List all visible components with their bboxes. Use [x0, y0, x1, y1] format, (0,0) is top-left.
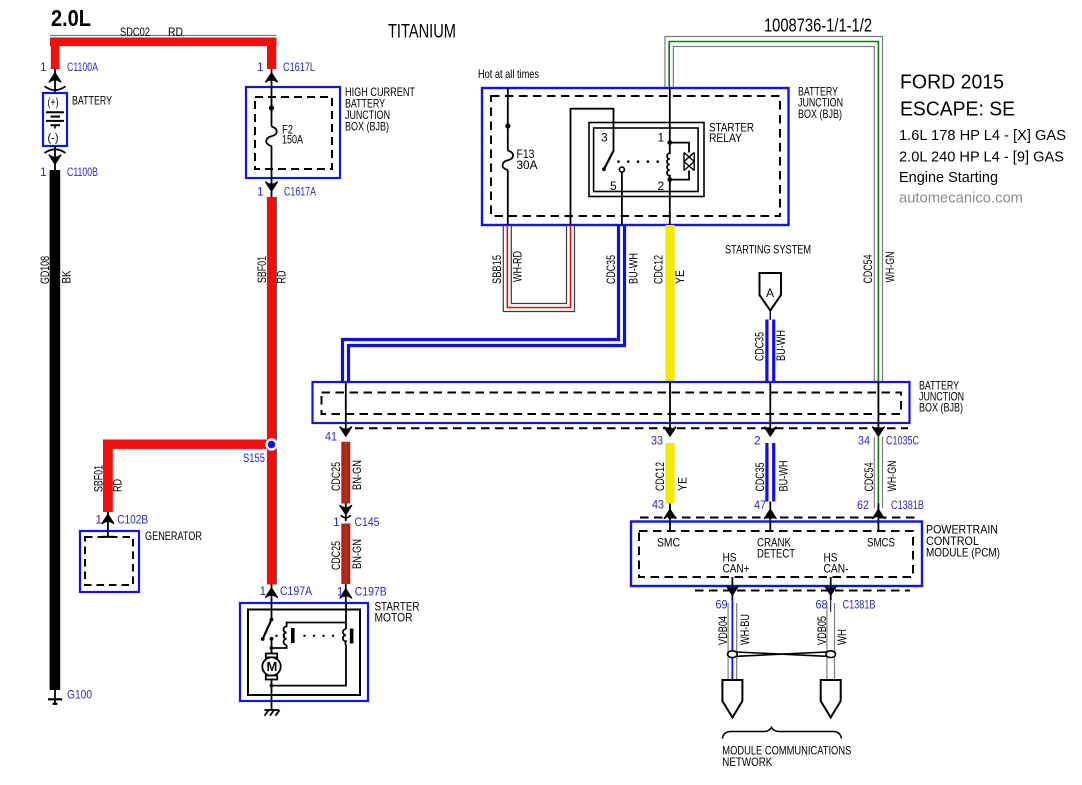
- wire CDC35 BU-WH from A to BJB strip (double blue): [767, 320, 774, 383]
- label SDC02: [120, 25, 150, 39]
- svg-text:C197B: C197B: [355, 585, 387, 599]
- PCM pin 47 stub: [769, 522, 771, 532]
- svg-text:SMCS: SMCS: [867, 536, 895, 550]
- svg-text:VDB04: VDB04: [716, 616, 730, 645]
- label SBF01 generator branch: [92, 465, 106, 492]
- svg-text:BU-WH: BU-WH: [627, 253, 641, 284]
- svg-text:BU-WH: BU-WH: [777, 461, 791, 492]
- svg-text:1: 1: [260, 584, 267, 598]
- connector C1617A symbol (arrow): [266, 178, 278, 197]
- label Hot at all times: [478, 67, 539, 81]
- svg-text:69: 69: [716, 598, 728, 612]
- label CDC35: [604, 255, 618, 284]
- svg-text:C197A: C197A: [280, 584, 312, 598]
- svg-text:C1381B: C1381B: [843, 598, 876, 612]
- svg-text:C1617A: C1617A: [284, 185, 316, 199]
- svg-text:SDC02: SDC02: [120, 25, 150, 39]
- generator box: [80, 531, 139, 592]
- svg-text:TITANIUM: TITANIUM: [388, 22, 456, 43]
- wire CDC35 BU-WH strip to PCM (double blue): [767, 443, 774, 502]
- label F13 30A: [517, 147, 538, 172]
- connector C1100A symbol (arrow + socket arc): [45, 69, 66, 93]
- connector C1381B arrow pin 69: [727, 586, 739, 595]
- off-page connector A: [760, 273, 782, 311]
- starter hold-in return wire: [270, 645, 346, 687]
- svg-text:RD: RD: [275, 270, 289, 283]
- label STARTER RELAY: [709, 121, 754, 146]
- wire CDC25 BN-GN segment 2: [341, 524, 350, 585]
- connector C145 arrow: [340, 504, 352, 522]
- label pin 47: [754, 498, 766, 512]
- svg-text:M: M: [267, 659, 278, 674]
- connector C1100B symbol (socket arc + arrow): [45, 146, 66, 170]
- connector C197B arrow: [340, 584, 352, 603]
- high current battery junction box (BJB): [246, 87, 340, 178]
- svg-text:CDC35: CDC35: [604, 255, 618, 284]
- label ESCAPE: SE header: [900, 99, 1015, 121]
- svg-text:WH-GN: WH-GN: [883, 252, 897, 283]
- svg-text:C102B: C102B: [117, 513, 148, 527]
- svg-text:2.0L 240 HP L4 - [9] GAS: 2.0L 240 HP L4 - [9] GAS: [899, 150, 1064, 166]
- label BATTERY JUNCTION BOX (BJB): [798, 85, 843, 122]
- label HS CAN-: [824, 551, 849, 576]
- svg-text:CDC54: CDC54: [862, 462, 876, 491]
- label RD: [168, 25, 183, 39]
- connector C197A arrow: [266, 585, 278, 604]
- svg-text:WH-RD: WH-RD: [511, 251, 525, 282]
- starter motor M: [262, 648, 280, 710]
- battery junction box (BJB) top: [482, 88, 789, 225]
- svg-text:BOX (BJB): BOX (BJB): [345, 120, 389, 134]
- svg-text:41: 41: [325, 430, 337, 444]
- label SBB15: [490, 255, 504, 284]
- svg-text:BATTERY: BATTERY: [72, 94, 112, 108]
- connector C1035C arrow pin 41: [340, 427, 352, 436]
- svg-text:BK: BK: [60, 271, 74, 284]
- label BU-WH lower: [777, 461, 791, 492]
- wire to fuse F13: [507, 88, 509, 225]
- label pin 34: [858, 434, 870, 448]
- label CDC12: [652, 255, 666, 284]
- wire pin41 through strip: [345, 382, 347, 436]
- label CDC54 upper run: [861, 254, 875, 283]
- label pin 43: [652, 498, 664, 512]
- label pin 33: [651, 434, 663, 448]
- svg-text:30A: 30A: [517, 158, 538, 172]
- connector C102B arrow: [102, 512, 114, 531]
- connector C1381B arrow pin 43: [664, 504, 676, 522]
- PCM pin 43 stub: [669, 522, 671, 532]
- label connector C1381B bottom: [843, 598, 876, 612]
- svg-text:BOX (BJB): BOX (BJB): [919, 401, 963, 415]
- connector C1381B dashed line bottom: [695, 590, 910, 592]
- svg-text:3: 3: [601, 131, 608, 145]
- battery (-) terminal label: [48, 131, 59, 145]
- relay pin 2 label: [658, 179, 665, 193]
- wire SDC02 RD battery feed (thin outline above): [50, 34, 277, 36]
- svg-text:C1100B: C1100B: [67, 165, 98, 179]
- connector C1035C arrow pin 2: [765, 427, 777, 436]
- svg-text:43: 43: [652, 498, 664, 512]
- label connector C1381B top: [891, 498, 924, 512]
- wire pin2 through strip: [769, 382, 771, 436]
- relay switch blade: [602, 151, 614, 171]
- label STARTER MOTOR: [375, 600, 420, 625]
- node relay pin 1 dot: [667, 140, 672, 145]
- wire relay pin 3 feed: [571, 109, 614, 225]
- label Engine Starting: [899, 170, 998, 186]
- svg-text:1: 1: [257, 185, 264, 199]
- label 1008736-1/1-1/2: [764, 16, 872, 36]
- connector C1381B dashed line: [640, 517, 915, 519]
- label connector C1035C: [886, 434, 919, 448]
- starter switch feed wire: [270, 603, 274, 621]
- svg-text:ESCAPE: SE: ESCAPE: SE: [900, 99, 1015, 121]
- PCM pin 62 stub: [877, 522, 879, 532]
- svg-text:Engine Starting: Engine Starting: [899, 170, 998, 186]
- fuse F13 30A: [503, 151, 514, 171]
- label SMC: [657, 536, 680, 550]
- svg-text:CDC25: CDC25: [329, 462, 343, 491]
- connector C197A pin 1 label: [260, 584, 313, 598]
- wire CDC35 BU-WH relay pin5 to BJB strip (double blue): [343, 225, 625, 382]
- label VDB04: [716, 616, 730, 645]
- svg-text:YE: YE: [676, 477, 690, 491]
- svg-text:CAN+: CAN+: [723, 562, 750, 576]
- svg-text:RELAY: RELAY: [709, 131, 742, 145]
- svg-text:5: 5: [610, 179, 617, 193]
- connector C1035C dashed line: [355, 427, 908, 429]
- label WH-RD: [511, 251, 525, 282]
- connector C1617L symbol (arrow): [266, 69, 278, 87]
- label BN-GN segment 1: [350, 460, 364, 490]
- svg-text:GENERATOR: GENERATOR: [145, 529, 202, 543]
- wire WH-GN loop from header (gray-green-gray): [665, 37, 883, 383]
- wire red vertical to C1100A: [51, 38, 60, 70]
- svg-text:CDC35: CDC35: [753, 462, 767, 491]
- label CDC25 segment 1: [329, 462, 343, 491]
- svg-text:47: 47: [754, 498, 766, 512]
- label S155: [243, 451, 265, 465]
- label BU-WH: [627, 253, 641, 284]
- label RD generator branch: [111, 479, 125, 492]
- label CDC25 segment 2: [329, 541, 343, 570]
- svg-text:WH-BU: WH-BU: [738, 614, 752, 645]
- label pin 69: [716, 598, 728, 612]
- svg-text:Hot at all times: Hot at all times: [478, 67, 539, 81]
- svg-text:34: 34: [858, 434, 870, 448]
- connector C145 pin 1 label: [333, 515, 380, 529]
- label WH-GN upper run: [883, 252, 897, 283]
- svg-text:C1617L: C1617L: [283, 60, 315, 74]
- relay pin 5 contact: [619, 167, 624, 172]
- label HIGH CURRENT BATTERY JUNCTION BOX (BJB): [345, 85, 416, 134]
- label BATTERY JUNCTION BOX (BJB) strip: [919, 379, 964, 415]
- label BATTERY: [72, 94, 112, 108]
- label CDC54 lower: [862, 462, 876, 491]
- svg-text:WH: WH: [835, 629, 849, 645]
- label SMCS: [867, 536, 895, 550]
- node junction dot in HC BJB: [269, 105, 274, 110]
- svg-text:WH-GN: WH-GN: [885, 461, 899, 492]
- wire VDB05 WH (gray-gray): [827, 600, 835, 680]
- wire CDC25 BN-GN segment 1: [341, 442, 350, 504]
- label HS CAN+: [723, 551, 750, 576]
- wire SBB15 WH-RD loop (black-red-black): [503, 225, 574, 312]
- wire pin34 through strip: [877, 382, 879, 436]
- label VDB05: [815, 616, 829, 645]
- connector C1381B arrow pin 62: [873, 504, 885, 522]
- svg-text:BU-WH: BU-WH: [774, 330, 788, 361]
- label FORD 2015 header: [900, 72, 1004, 94]
- label CDC12 lower: [653, 462, 667, 491]
- label TITANIUM: [388, 22, 456, 43]
- connector C102B pin 1 label: [95, 513, 148, 527]
- label pin 62: [857, 498, 869, 512]
- svg-text:CDC12: CDC12: [653, 462, 667, 491]
- svg-text:2.0L: 2.0L: [51, 5, 91, 31]
- label BK: [60, 271, 74, 284]
- connector C1035C arrow pin 33: [664, 427, 676, 436]
- battery cell plates symbol: [46, 112, 64, 128]
- svg-text:2: 2: [754, 434, 761, 448]
- wire relay pin 5 to box edge: [621, 172, 623, 225]
- label STARTING SYSTEM: [725, 243, 811, 257]
- label WH: [835, 629, 849, 645]
- connector C1381B arrow pin 68: [825, 586, 837, 595]
- connector C197B pin 1 label: [337, 585, 387, 599]
- wire CDC12 YE strip to PCM: [665, 443, 674, 504]
- relay coil: [667, 143, 670, 180]
- svg-text:MODULE (PCM): MODULE (PCM): [926, 546, 1000, 560]
- svg-text:FORD 2015: FORD 2015: [900, 72, 1004, 94]
- svg-text:33: 33: [651, 434, 663, 448]
- svg-text:NETWORK: NETWORK: [722, 755, 772, 769]
- svg-text:1: 1: [40, 60, 47, 74]
- relay pin 1 label: [658, 131, 665, 145]
- label CDC35 lower: [753, 462, 767, 491]
- wire pin33 through strip: [669, 382, 671, 436]
- svg-text:BN-GN: BN-GN: [350, 539, 364, 569]
- svg-text:C1035C: C1035C: [886, 434, 919, 448]
- wire VDB04 WH-BU (gray-blue-gray): [728, 600, 737, 680]
- connector C1617L pin 1 label: [257, 60, 315, 74]
- battery junction box strip: [313, 382, 910, 423]
- svg-text:STARTING SYSTEM: STARTING SYSTEM: [725, 243, 811, 257]
- svg-text:SBB15: SBB15: [490, 255, 504, 284]
- svg-text:1008736-1/1-1/2: 1008736-1/1-1/2: [764, 16, 872, 36]
- svg-text:1: 1: [337, 585, 344, 599]
- svg-text:BN-GN: BN-GN: [350, 460, 364, 490]
- connector C1100B pin 1 label: [40, 165, 98, 179]
- label SBF01 upper run: [255, 256, 269, 283]
- label YE: [673, 270, 687, 284]
- label POWERTRAIN CONTROL MODULE (PCM): [926, 523, 1000, 560]
- svg-text:GD108: GD108: [38, 256, 52, 284]
- wire SDC02 RD red horizontal: [50, 38, 277, 47]
- svg-text:BOX (BJB): BOX (BJB): [798, 107, 842, 121]
- relay pin 3 label: [601, 131, 608, 145]
- ground chassis symbol starter: [265, 710, 280, 716]
- label pin 41: [325, 430, 337, 444]
- label CRANK DETECT: [757, 536, 796, 561]
- connector C1035C arrow pin 34: [873, 427, 885, 436]
- relay mechanical link dots: [617, 160, 659, 163]
- starter solenoid coil 1: [284, 623, 347, 646]
- svg-text:CDC54: CDC54: [861, 254, 875, 283]
- starter solenoid pull-in wire: [270, 639, 287, 650]
- wire CDC12 YE relay pin2 to BJB strip: [665, 225, 674, 382]
- wire relay pin 1 from box top: [669, 88, 671, 143]
- svg-text:68: 68: [816, 598, 828, 612]
- svg-text:SBF01: SBF01: [92, 465, 106, 492]
- PCM pin 69 stub: [731, 577, 733, 600]
- label automecanico.com: [899, 190, 1023, 207]
- connector C1617A pin 1 label: [257, 185, 316, 199]
- wire relay pin 2 to box edge: [669, 180, 671, 225]
- svg-text:G100: G100: [67, 688, 92, 702]
- wire CDC54 WH-GN strip to PCM (gray-green-gray): [874, 436, 882, 510]
- svg-text:62: 62: [857, 498, 869, 512]
- svg-text:2: 2: [658, 179, 665, 193]
- fuse F2 150A: [266, 127, 277, 147]
- label CDC35 at A drop: [753, 332, 767, 361]
- connector C1381B arrow pin 47: [765, 502, 777, 522]
- svg-text:1: 1: [658, 131, 665, 145]
- wire GD108 BK ground cable: [50, 170, 61, 690]
- svg-text:(-): (-): [48, 131, 59, 145]
- connector C1100A pin 1 label: [40, 60, 98, 74]
- starter solenoid hold-in wire from C197B: [345, 603, 347, 629]
- svg-text:1: 1: [333, 515, 340, 529]
- starter solenoid coil 2: [343, 629, 354, 646]
- starter switch contact: [270, 637, 274, 641]
- svg-text:C1100A: C1100A: [67, 60, 98, 74]
- label 2.0L engine variant: [51, 5, 91, 31]
- svg-text:150A: 150A: [282, 133, 303, 147]
- label F2 150A: [282, 123, 303, 147]
- svg-text:SBF01: SBF01: [255, 256, 269, 283]
- svg-text:YE: YE: [673, 270, 687, 284]
- svg-text:VDB05: VDB05: [815, 616, 829, 645]
- off-page connector HS CAN+: [722, 680, 742, 718]
- svg-text:CAN-: CAN-: [824, 562, 849, 576]
- wire red vertical to C1617L: [267, 38, 276, 70]
- brace module communications network: [722, 728, 841, 739]
- wire SBF01 RD vertical C1617A to C197A: [267, 197, 277, 585]
- svg-text:RD: RD: [111, 479, 125, 492]
- label GENERATOR: [145, 529, 202, 543]
- label WH-BU: [738, 614, 752, 645]
- wire through F2: [271, 87, 273, 178]
- generator terminal stub: [102, 531, 114, 537]
- starter switch blade: [261, 620, 272, 641]
- svg-text:A: A: [766, 286, 774, 300]
- starter motor box: [240, 603, 368, 701]
- label YE lower: [676, 477, 690, 491]
- node S155 splice on red wire: [265, 438, 277, 450]
- label GD108: [38, 256, 52, 284]
- off-page connector HS CAN-: [821, 680, 841, 718]
- starter relay case: [589, 123, 704, 197]
- svg-text:DETECT: DETECT: [757, 547, 796, 561]
- svg-text:1: 1: [40, 165, 47, 179]
- label pin 68: [816, 598, 828, 612]
- svg-text:C145: C145: [355, 515, 380, 529]
- powertrain control module (PCM) box: [631, 522, 922, 587]
- label BU-WH at A drop: [774, 330, 788, 361]
- svg-text:S155: S155: [243, 451, 265, 465]
- svg-text:MOTOR: MOTOR: [375, 611, 413, 625]
- battery (+) terminal label: [48, 95, 59, 109]
- label 1.6L 178 HP L4 - [X] GAS: [899, 128, 1066, 144]
- svg-text:automecanico.com: automecanico.com: [899, 190, 1023, 207]
- svg-text:1: 1: [257, 60, 264, 74]
- svg-text:RD: RD: [168, 25, 183, 39]
- ground G100 symbol: [48, 690, 62, 704]
- svg-text:CDC25: CDC25: [329, 541, 343, 570]
- node junction dot above F13: [505, 123, 510, 128]
- svg-text:CDC12: CDC12: [652, 255, 666, 284]
- relay pin 5 label: [610, 179, 617, 193]
- node relay pin 2 dot: [667, 177, 672, 182]
- relay suppression resistor branch: [670, 143, 694, 180]
- label RD upper run: [275, 270, 289, 283]
- label 2.0L 240 HP L4 - [9] GAS: [899, 150, 1064, 166]
- svg-text:SMC: SMC: [657, 536, 680, 550]
- twisted pair symbol: [728, 651, 836, 658]
- svg-text:1: 1: [95, 513, 102, 527]
- wire SBF01 RD branch to generator: [103, 440, 277, 513]
- label pin 2: [754, 434, 761, 448]
- label BN-GN segment 2: [350, 539, 364, 569]
- starter mechanical link dots: [275, 635, 334, 637]
- svg-text:C1381B: C1381B: [891, 498, 924, 512]
- wire from connector A: [769, 311, 771, 321]
- svg-text:CDC35: CDC35: [753, 332, 767, 361]
- svg-text:(+): (+): [48, 95, 59, 109]
- battery BATTERY box: [43, 93, 67, 146]
- label WH-GN lower: [885, 461, 899, 492]
- PCM pin 68 stub: [830, 577, 832, 600]
- label MODULE COMMUNICATIONS NETWORK: [722, 744, 851, 770]
- svg-text:1.6L 178 HP L4 - [X] GAS: 1.6L 178 HP L4 - [X] GAS: [899, 128, 1066, 144]
- label G100: [67, 688, 92, 702]
